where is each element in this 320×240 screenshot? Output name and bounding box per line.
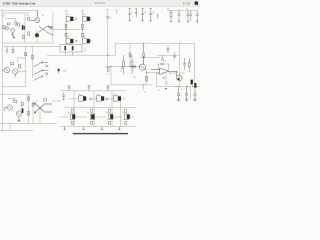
svg-text:QL: QL [162, 73, 165, 75]
terminal stub aux [116, 10, 118, 14]
wire driver vertical [110, 67, 112, 85]
resistor R23 collector [143, 43, 145, 64]
transformer X1 bowtie [34, 103, 52, 113]
diode D3 [133, 65, 136, 67]
wire row1 link c [106, 98, 113, 100]
wire bottom grid mid rail [64, 106, 136, 108]
wire input lower [8, 99, 15, 101]
terminal tick aux [116, 9, 118, 11]
resistor R2b [18, 23, 20, 26]
wire Q5 emitter down [36, 37, 38, 43]
wire center rail drop [142, 85, 144, 91]
wire Q5 base link [18, 71, 26, 73]
wire right bottom rail [157, 85, 200, 87]
resistor R4 [28, 32, 30, 35]
connector arrow B [45, 72, 48, 75]
svg-text:4k7: 4k7 [13, 98, 16, 100]
wire bottom-left top rail [0, 93, 30, 95]
wire right vertical [178, 43, 180, 86]
resistor R21 [121, 67, 123, 69]
capacitor C44 electrolytic [194, 83, 196, 88]
diode D211 [82, 127, 84, 130]
svg-text:10: 10 [110, 17, 112, 19]
diode D210 [63, 127, 65, 130]
node Q6 emitter [146, 72, 147, 73]
wire bottom grid column 1 [73, 91, 75, 127]
wire bottom grid bottom rail [60, 126, 136, 128]
resistor R111 emitter [82, 24, 84, 27]
resistor R113 emitter [82, 33, 84, 36]
transistor Q3 [11, 28, 15, 35]
capacitor C10 [6, 47, 8, 54]
svg-text:Tan 0.33: Tan 0.33 [53, 100, 62, 102]
resistor R11 [18, 65, 20, 68]
transistor Q4 [2, 67, 10, 72]
crossover X2 [39, 26, 53, 35]
capacitor C71 [185, 86, 188, 101]
wire grid mid rail [53, 28, 83, 30]
connector arrow A [45, 65, 48, 68]
resistor R20 [107, 67, 109, 72]
capacitor C70 [177, 86, 180, 101]
ground lower preamp [18, 119, 21, 121]
capacitor C45 [173, 53, 176, 60]
wire grid column B [82, 11, 84, 45]
wire row2 link b [75, 116, 86, 118]
wire grid bottom rail [2, 46, 60, 48]
wire U1 out tap [170, 72, 185, 74]
node driver rail b [129, 66, 130, 67]
svg-text:n1: n1 [36, 101, 38, 103]
wire bottom-left vertical A [27, 94, 29, 123]
svg-text:2k: 2k [120, 71, 122, 73]
resistor R54 [44, 99, 47, 101]
svg-text:2·0·2·5·0: 2·0·2·5·0 [95, 2, 106, 5]
svg-text:1, a: 1, a [143, 46, 146, 48]
capacitor C34 rail [196, 10, 199, 22]
svg-text:E 262 7018 Overlay S dv: E 262 7018 Overlay S dv [3, 2, 36, 6]
resistor R12 [25, 52, 27, 55]
resistor R13 [32, 55, 34, 58]
resistor R3 [28, 17, 30, 20]
resistor R53 [27, 112, 29, 115]
wire row2 link c [94, 116, 105, 118]
resistor R222 [109, 121, 111, 124]
resistor R2 [15, 22, 17, 25]
header corner mark [195, 1, 198, 4]
bias box T1 [60, 45, 82, 56]
svg-text:10: 10 [144, 12, 146, 14]
diode D213 [118, 127, 120, 130]
resistor R40 [123, 55, 125, 74]
svg-text:47: 47 [186, 8, 188, 10]
wire row1 link a [68, 98, 79, 100]
resistor R42 [188, 58, 190, 72]
output transistor Q102 [83, 16, 92, 21]
wire left cluster right edge [52, 13, 54, 43]
wire bottom-left lower rail [0, 129, 33, 131]
transistor Q5 dark [35, 33, 39, 37]
capacitor C40 [161, 55, 164, 60]
op-amp U1 [151, 68, 174, 74]
wire Q6 emitter [146, 70, 148, 85]
capacitor C22 rail [149, 9, 152, 21]
wire grid column A [65, 11, 67, 45]
feedback loop U1 [158, 63, 169, 71]
terminal tick center drop [107, 9, 109, 11]
resistor R211 [91, 109, 93, 112]
wire row2 link d [113, 116, 122, 118]
transistor Q8 [174, 71, 183, 80]
diode D212 [101, 127, 103, 130]
output transistor Q206 [108, 114, 113, 119]
terminal tick column A [65, 10, 67, 12]
capacitor C32 rail [187, 10, 190, 22]
svg-text:10k: 10k [165, 83, 168, 85]
resistor R22 [146, 76, 148, 80]
node rail A [175, 86, 176, 87]
wire top supply rail [168, 9, 197, 11]
arrow output [165, 88, 167, 90]
resistor R50 [14, 100, 17, 102]
output transistor Q202 [97, 96, 108, 101]
wire lower-left tie [9, 123, 11, 130]
node driver rail a [110, 66, 111, 67]
wire inverting feed [155, 73, 157, 86]
wire right inner rail [140, 57, 161, 59]
wire mid-left vertical B [32, 47, 34, 78]
svg-text:4n: 4n [158, 89, 160, 91]
output transistor Q201 [79, 96, 92, 101]
wire D3 riser [129, 43, 131, 67]
transistor Q5 [13, 69, 18, 77]
svg-text:867: 867 [133, 77, 136, 79]
node bias crossing [107, 55, 108, 56]
wire row1 link b [91, 98, 96, 100]
transistor Q1 [2, 26, 5, 29]
svg-text:2u: 2u [181, 89, 183, 91]
node U1 out [169, 72, 170, 73]
svg-text:4 7·25: 4 7·25 [183, 2, 190, 5]
wire bottom-left mid rail [0, 122, 56, 124]
resistor R1 [7, 23, 10, 25]
resistor R5 [22, 36, 24, 39]
switch S2a [34, 62, 49, 67]
output transistor Q204 [70, 114, 75, 119]
node center rail tap [143, 84, 144, 85]
transistor Q2 [5, 27, 8, 30]
wire bottom grid column 2 [93, 91, 95, 127]
resistor R52 [27, 97, 29, 100]
wire bottom grid top rail [61, 90, 126, 92]
resistor R110 emitter [65, 24, 67, 27]
capacitor C21 rail [141, 9, 144, 21]
switch S2b [34, 70, 49, 75]
wire center bottom rail [111, 84, 152, 86]
svg-text:5b: 5b [144, 92, 146, 94]
resistor R212 [109, 109, 111, 112]
capacitor C50 electrolytic [22, 108, 24, 113]
wire mid-left bottom [2, 86, 26, 88]
node rail C [192, 86, 193, 87]
svg-text:47k: 47k [27, 15, 30, 17]
resistor R213 [125, 109, 127, 112]
wire q5 link [36, 30, 38, 33]
transistor Q11 [5, 105, 13, 111]
wire preamp bottom rail [2, 42, 53, 44]
svg-text:7.5: 7.5 [164, 61, 167, 63]
ground U1 [162, 77, 165, 80]
wire enclosure top [116, 43, 195, 86]
capacitor C1 electrolytic [22, 25, 24, 30]
capacitor C41 top [167, 46, 170, 53]
transistor Q12 [16, 111, 21, 119]
transistor Q4 [30, 10, 40, 22]
wire bias link [47, 54, 116, 56]
capacitor C18 drop [106, 17, 109, 18]
svg-text:05: 05 [167, 8, 169, 10]
svg-text:g: g [181, 95, 182, 97]
wire output branch [165, 73, 167, 86]
capacitor C43 electrolytic [191, 80, 193, 85]
wire driver base rail [105, 66, 139, 68]
svg-text:2k: 2k [107, 74, 109, 76]
resistor R24 riser [129, 53, 131, 57]
output transistor Q203 [113, 96, 121, 101]
wire top-left rail [2, 12, 28, 14]
resistor R55 [32, 103, 34, 106]
capacitor C42 [183, 58, 186, 70]
wire bottom-right stub [190, 86, 192, 99]
wire emitter tap [147, 72, 158, 74]
terminal tick column B [81, 10, 83, 12]
diode D2 reference [57, 68, 60, 73]
resistor R221 [91, 121, 93, 124]
output transistor Q207 [124, 114, 130, 119]
resistor R14 [12, 47, 14, 53]
wire bottom grid column 4 [119, 95, 121, 127]
resistor R30 rail [170, 10, 172, 22]
switch S2c [34, 76, 43, 81]
capacitor C2 electrolytic [24, 26, 25, 30]
resistor R51 [21, 102, 23, 105]
wire right inner top [157, 54, 179, 56]
resistor R112 emitter [65, 33, 67, 36]
wire preamp link [18, 58, 26, 62]
capacitor C72 [194, 86, 197, 101]
node rail B [186, 86, 187, 87]
svg-text:33: 33 [152, 12, 154, 14]
resistor R214 top riser [68, 86, 70, 91]
resistor R210 [71, 109, 73, 112]
output transistor Q104 [83, 39, 92, 44]
resistor R10 [10, 63, 13, 65]
thick separator bar [73, 133, 128, 134]
wire input coupling [5, 19, 16, 22]
output transistor Q205 [90, 114, 95, 119]
resistor R41 [131, 55, 133, 74]
svg-text:10: 10 [131, 12, 133, 14]
header bar [0, 0, 200, 7]
wire bottom grid column 3 [111, 91, 113, 127]
ground Q3 [11, 34, 14, 37]
wire row2 link e [130, 116, 134, 118]
capacitor C60 input [62, 92, 65, 100]
output transistor Q103 [66, 39, 77, 44]
wire input node [2, 27, 5, 29]
wire mid-left vertical A [25, 47, 27, 87]
resistor R215 top riser [88, 86, 90, 91]
wire left page border [1, 10, 3, 131]
node grid mid B [82, 29, 83, 30]
wire top-left page edge [0, 9, 38, 11]
capacitor C23 rail [135, 9, 137, 17]
resistor R223 [125, 121, 127, 124]
wire row2 link a [60, 116, 68, 118]
capacitor C20 rail [128, 9, 131, 21]
capacitor C19 drop [157, 15, 159, 19]
transistor Q6 [139, 56, 146, 71]
wire row1 link d [121, 98, 126, 100]
wire bottom-left vertical B [32, 101, 34, 123]
output transistor Q101 [66, 16, 77, 21]
svg-text:1k: 1k [42, 15, 44, 17]
svg-text:o: o [172, 84, 173, 86]
wire X1 down [39, 109, 41, 124]
node grid mid A [65, 29, 66, 30]
wire center drop [107, 10, 109, 67]
ground preamp [12, 36, 15, 39]
resistor R220 [71, 121, 73, 124]
wire cluster vertical [24, 14, 26, 44]
capacitor C31 rail [178, 10, 181, 22]
resistor R216 top riser [107, 86, 109, 91]
capacitor C33 rail [190, 10, 192, 21]
